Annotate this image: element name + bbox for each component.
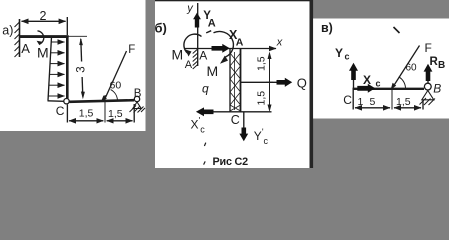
svg-text:F: F: [425, 41, 432, 55]
svg-text:C: C: [56, 104, 65, 118]
svg-text:A: A: [185, 59, 193, 71]
svg-text:60: 60: [110, 80, 122, 92]
svg-text:M: M: [207, 63, 219, 79]
svg-text:M: M: [172, 47, 184, 63]
svg-text:x: x: [276, 37, 283, 49]
svg-text:3: 3: [76, 66, 88, 72]
svg-text:F: F: [128, 44, 135, 56]
svg-text:1,5: 1,5: [79, 107, 94, 119]
svg-text:A: A: [208, 18, 216, 30]
svg-text:C: C: [231, 113, 240, 127]
svg-text:б): б): [155, 21, 167, 36]
svg-text:q: q: [202, 82, 209, 96]
svg-text:2: 2: [40, 9, 47, 23]
svg-text:A: A: [236, 36, 244, 48]
svg-text:1,5: 1,5: [108, 108, 123, 120]
svg-text:A: A: [21, 41, 30, 56]
svg-text:Рис С2: Рис С2: [213, 156, 249, 168]
svg-text:a): a): [2, 24, 13, 38]
svg-text:B: B: [433, 81, 441, 95]
svg-text:Y: Y: [335, 46, 343, 60]
svg-text:60: 60: [406, 63, 418, 74]
svg-text:1,5: 1,5: [396, 96, 411, 108]
svg-text:C: C: [343, 93, 352, 107]
svg-text:B: B: [134, 88, 142, 100]
svg-text:c: c: [376, 79, 381, 89]
svg-text:Q: Q: [297, 75, 307, 90]
svg-text:A: A: [199, 49, 207, 63]
svg-text:в): в): [321, 21, 333, 35]
svg-text:M: M: [37, 45, 49, 61]
svg-text:B: B: [438, 60, 445, 71]
svg-text:X: X: [363, 73, 371, 87]
svg-text:c: c: [345, 52, 350, 62]
svg-text:1,5: 1,5: [256, 56, 268, 71]
svg-text:1,5: 1,5: [256, 91, 268, 106]
svg-text:1 5: 1 5: [358, 96, 377, 108]
